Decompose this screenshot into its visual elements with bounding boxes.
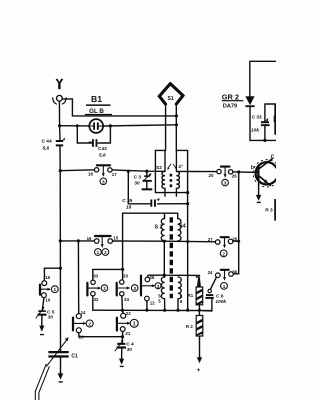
switch I contact 20 — [76, 328, 81, 333]
svg-text:3: 3 — [133, 286, 136, 291]
svg-text:5,6: 5,6 — [99, 152, 106, 158]
switch I contact 14 — [76, 314, 81, 319]
svg-text:2: 2 — [104, 250, 107, 255]
label C43 5,6 — [98, 146, 107, 158]
switch E labels 24 36 — [208, 269, 238, 275]
switch B contact 26 — [228, 170, 232, 174]
C5 lead from F bottom — [42, 298, 44, 310]
switch K contact 12 — [145, 296, 150, 301]
junction dot K wire — [163, 274, 166, 277]
svg-text:B1: B1 — [91, 94, 102, 104]
svg-text:R 3: R 3 — [265, 208, 273, 214]
switch K position circle 3 — [155, 283, 161, 289]
svg-text:C 4: C 4 — [126, 342, 134, 348]
switch E contact 36 — [229, 272, 234, 277]
switch G labels 13 32 — [93, 274, 99, 303]
capacitor C6 — [203, 289, 214, 311]
svg-text:C 6: C 6 — [216, 293, 224, 299]
switch I labels 14 20 — [79, 310, 86, 340]
junction dot bus3/R1R2 — [198, 309, 201, 312]
svg-text:34: 34 — [124, 297, 129, 302]
junction dot filter right — [109, 124, 112, 127]
svg-text:26: 26 — [232, 174, 237, 179]
svg-text:+: + — [197, 367, 201, 374]
junction dot rail/bus1 — [59, 169, 62, 172]
antenna arrow glyph — [56, 79, 64, 90]
label C44 5,6 — [42, 139, 52, 152]
svg-text:R 2: R 2 — [186, 324, 193, 329]
svg-text:12: 12 — [150, 300, 155, 305]
junction dot filter left — [76, 124, 79, 127]
wire rail to F top — [44, 268, 60, 280]
svg-text:15: 15 — [45, 275, 50, 280]
switch H contact 34 — [120, 292, 124, 296]
resistor R2 — [196, 310, 203, 357]
switch D wiper — [221, 237, 229, 248]
junction dot rail/F — [59, 267, 62, 270]
svg-text:36: 36 — [232, 269, 237, 274]
capacitor C44 — [56, 137, 65, 146]
svg-text:S 3: S 3 — [155, 225, 163, 231]
wire y=115.9 to S1 — [72, 115, 176, 117]
svg-text:C 35: C 35 — [122, 198, 132, 204]
svg-text:R1: R1 — [188, 293, 194, 298]
switch J contact 22 — [121, 313, 126, 318]
K/R1 feed wire — [147, 241, 199, 277]
S2 core dashes — [170, 174, 173, 188]
svg-text:100k: 100k — [215, 299, 226, 305]
junction dot rail/C35 — [186, 202, 189, 205]
positive terminal arrow — [197, 355, 203, 374]
svg-text:2: 2 — [88, 322, 91, 327]
svg-text:17: 17 — [112, 172, 117, 177]
S2 shield box — [155, 150, 187, 192]
diode lower lead — [250, 107, 276, 140]
junction dot bus3/S3 — [163, 309, 166, 312]
S2 core adjust arrows — [167, 164, 177, 170]
C35 branch wire — [128, 171, 187, 204]
svg-text:35: 35 — [149, 275, 154, 280]
switch I position circle 2 — [86, 320, 93, 327]
ceramic filter (circle with plates) — [89, 119, 103, 133]
trimmer C5 — [36, 307, 47, 325]
top right wire — [250, 61, 276, 96]
svg-text:C43: C43 — [98, 146, 107, 152]
rail x=78.4 bus2 to switch I — [77, 241, 79, 314]
svg-text:GR 2: GR 2 — [222, 92, 239, 101]
switch C contact 16 — [94, 239, 99, 244]
label C3 30 — [134, 175, 142, 187]
G H top wire — [93, 269, 123, 280]
svg-text:DA79: DA79 — [223, 103, 237, 109]
svg-text:S4: S4 — [179, 223, 185, 229]
aerial socket symbol — [53, 95, 67, 104]
svg-text:C 5: C 5 — [47, 309, 55, 315]
junction dot bus3/H-J — [121, 309, 124, 312]
switch D contact 27 — [215, 240, 220, 245]
switch K contact 35 — [145, 277, 150, 282]
H bottom lead — [121, 296, 124, 310]
svg-text:32: 32 — [94, 297, 99, 302]
svg-text:14: 14 — [81, 310, 86, 315]
junction dot rail/switch D — [237, 240, 240, 243]
S3 S4 top bridge wire — [123, 213, 178, 218]
junction dot bus3/S4 — [176, 309, 179, 312]
switch F contact 10 — [42, 293, 47, 298]
switch B contact 20 — [217, 169, 221, 173]
svg-text:2: 2 — [103, 286, 106, 291]
junction dot antenna/wire2 — [58, 124, 61, 127]
svg-text:S1: S1 — [168, 96, 174, 102]
left block rail x=122.6 — [122, 213, 124, 280]
switch K labels 35 12 — [149, 275, 155, 305]
svg-text:33: 33 — [123, 274, 128, 279]
switch G wiper — [87, 283, 101, 296]
switch C contact 15 — [108, 239, 113, 244]
junction dot rail S2 box — [186, 191, 189, 194]
switch A contact 16 — [94, 168, 98, 172]
diode GR2 — [245, 96, 254, 107]
junction dot bus3/K — [145, 309, 148, 312]
svg-text:3: 3 — [224, 181, 227, 186]
switch F wiper — [40, 285, 51, 295]
junction dot S1 right leg upper — [175, 114, 178, 117]
junction dot bus2/rail — [186, 240, 189, 243]
resistor R1 — [196, 276, 203, 310]
svg-text:33: 33 — [93, 274, 98, 279]
svg-text:C1: C1 — [71, 353, 78, 359]
switch E wiper — [221, 270, 229, 281]
capacitor C33 — [261, 118, 270, 126]
S2 right winding — [176, 150, 179, 196]
label B1 / GLB — [85, 94, 112, 115]
junction dot bus2/S3 — [163, 240, 166, 243]
junction dot rail bus3 — [186, 309, 189, 312]
C6 lead from switch E — [211, 277, 217, 289]
S3 bottom winding top lead — [163, 275, 165, 277]
switch C wiper — [95, 236, 111, 248]
switch H labels 33 34 — [123, 274, 129, 303]
switch A labels 16 17 — [88, 172, 117, 178]
svg-text:2: 2 — [222, 251, 225, 256]
switch I wiper — [73, 318, 87, 331]
switch H wiper — [117, 283, 131, 296]
wire antenna to B1 corner — [62, 99, 72, 116]
svg-text:5,6: 5,6 — [43, 146, 50, 152]
switch G position circle 2 — [101, 285, 108, 292]
switch H position circle 3 — [131, 285, 138, 292]
winding pin labels 5 5 — [158, 294, 161, 304]
junction dot bus2/I-rail — [77, 239, 80, 242]
svg-text:1: 1 — [133, 321, 136, 327]
left rail x=60.3 — [58, 101, 61, 170]
junction dot base rail — [237, 170, 240, 173]
svg-text:27: 27 — [208, 237, 213, 242]
trimmer C4 — [115, 337, 126, 358]
emitter negative terminal arrow — [256, 193, 261, 203]
switch A wiper — [97, 165, 110, 177]
transistor B1 (OC unit) — [251, 155, 281, 187]
label C5 30 — [47, 309, 55, 320]
switch C labels 16 15 — [87, 235, 119, 240]
tuning gang arrow through C1 — [47, 337, 69, 366]
junction dot bus2 left rail — [59, 239, 62, 242]
bus3 — [93, 309, 212, 311]
svg-text:C: C — [271, 155, 275, 161]
label C33 10k — [251, 115, 262, 134]
switch A contact 17 — [108, 168, 112, 172]
label C35 18 — [122, 198, 132, 210]
svg-text:b: b — [251, 165, 254, 171]
S3 S4 transformer core — [170, 217, 173, 298]
junction dot GH wire — [121, 268, 124, 271]
svg-text:1: 1 — [53, 287, 56, 292]
C33 top wire — [265, 104, 276, 140]
switch B position circle 3 — [222, 179, 229, 186]
switch E contact 24 — [216, 273, 221, 278]
svg-text:18: 18 — [126, 205, 132, 211]
trimmer C3 — [142, 171, 153, 190]
svg-text:16: 16 — [87, 236, 92, 241]
svg-text:C 33: C 33 — [252, 115, 262, 121]
svg-text:2³: 2³ — [178, 164, 183, 170]
S4 bottom winding — [178, 277, 181, 310]
svg-text:10: 10 — [45, 298, 50, 303]
capacitor C43 branch — [77, 126, 110, 143]
svg-text:C 44: C 44 — [42, 139, 52, 145]
svg-text:15: 15 — [113, 235, 118, 240]
S3 top winding — [161, 219, 164, 242]
loop antenna S1 diamond — [159, 84, 183, 105]
junction dot S1 right leg lower — [175, 123, 178, 126]
switch J labels 22 21 — [125, 311, 131, 336]
switch G contact 13 — [91, 280, 95, 284]
svg-text:S2: S2 — [156, 165, 162, 171]
svg-text:26: 26 — [232, 236, 237, 241]
switch B wiper — [221, 167, 230, 178]
switch H contact 33 — [120, 280, 124, 284]
svg-text:20: 20 — [209, 173, 214, 178]
svg-text:16: 16 — [88, 172, 93, 177]
S2 left winding — [162, 150, 165, 196]
bus1 left segment + switch A wiring — [60, 170, 165, 172]
variable capacitor C1 — [48, 351, 68, 373]
svg-text:10k: 10k — [251, 127, 259, 133]
K bottom lead — [146, 301, 148, 310]
switch E position circle 1 — [221, 283, 228, 290]
right rail x=238.7 — [233, 172, 239, 274]
switch J contact 21 — [120, 327, 125, 332]
switch D position circle 2 — [220, 250, 227, 257]
bus3 left corner to G bottom — [92, 296, 94, 310]
C1 ground arrow — [58, 372, 64, 383]
junction dot C4 — [121, 335, 124, 338]
switch B labels 20 26 — [209, 173, 238, 179]
switch J top stub — [121, 310, 124, 313]
C4 ground arrow — [119, 357, 124, 367]
bus1 right segment S2 to B to transistor — [177, 170, 258, 173]
switch G contact 32 — [91, 292, 95, 296]
label GR2 / DA79 — [222, 92, 244, 109]
svg-text:22: 22 — [126, 311, 131, 316]
svg-text:24: 24 — [208, 270, 213, 275]
svg-text:1: 1 — [97, 250, 100, 255]
wire y=125.7 with filter parallel branch — [60, 125, 177, 126]
resistor block at right edge — [274, 105, 276, 134]
label C4 30 — [126, 342, 134, 353]
bus2 — [60, 240, 215, 243]
switch D right link — [233, 240, 239, 242]
label C6 100k — [215, 293, 226, 304]
C5 ground arrow — [39, 324, 44, 335]
svg-text:30: 30 — [48, 315, 54, 321]
switch A position circle 3 — [100, 178, 107, 185]
junction dot C3 — [145, 170, 148, 173]
switch K wiper — [141, 276, 155, 296]
switch F position circle 1 — [51, 286, 58, 293]
switch D labels 27 26 — [208, 236, 238, 242]
tuning shaft link — [35, 364, 49, 400]
I J bottom wire — [79, 333, 123, 337]
switch J wiper — [117, 318, 131, 331]
svg-text:30: 30 — [127, 347, 133, 353]
S1 right leg — [175, 104, 177, 151]
svg-text:21: 21 — [125, 331, 130, 336]
svg-text:30: 30 — [134, 181, 140, 187]
svg-text:C 3: C 3 — [134, 175, 142, 181]
junction dot bus1/C35 — [127, 170, 130, 173]
capacitor C35 — [150, 198, 159, 207]
switch J position circle 1 — [130, 319, 138, 327]
switch F labels 15 10 — [45, 275, 51, 302]
svg-text:1: 1 — [223, 284, 226, 289]
junction dot C33 bottom — [263, 139, 266, 142]
resistor R3 (cut at edge) — [274, 199, 276, 221]
switch C position circles 1 2 — [95, 249, 109, 256]
switch F contact 15 — [42, 281, 47, 286]
S3 bottom winding — [161, 277, 164, 310]
winding pin labels 5 6 — [180, 294, 183, 304]
svg-text:3: 3 — [102, 179, 105, 184]
J bottom lead — [122, 331, 124, 336]
S4 top winding — [178, 219, 181, 242]
middle rail x=187.7 — [187, 193, 189, 311]
transistor emitter lead down — [258, 181, 260, 194]
switch D contact 26 — [228, 239, 233, 244]
S1 left leg — [165, 104, 167, 151]
